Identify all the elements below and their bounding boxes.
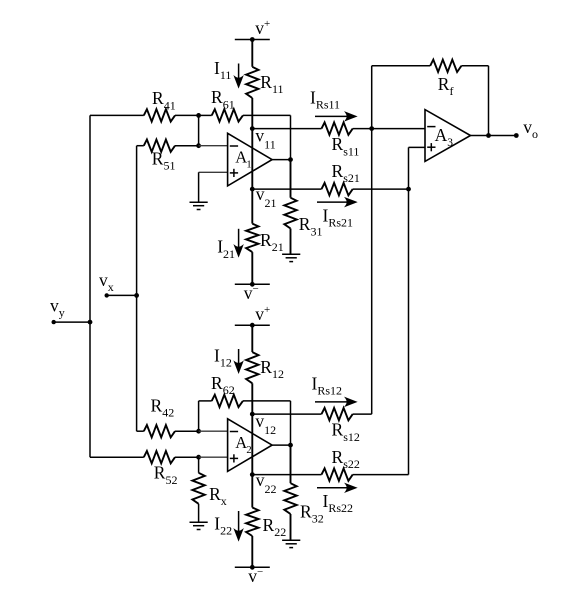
resistor Rs21: [252, 161, 408, 195]
wire A3 plus input stub: [409, 146, 426, 148]
wire R12 to node v12: [251, 383, 253, 414]
resistor R22: [246, 508, 286, 540]
node R52/A2 plus: [196, 455, 201, 460]
node v21: [250, 184, 277, 210]
wire R21 to v-: [251, 252, 253, 284]
resistor R62: [199, 373, 291, 431]
wire to A2 inverting input: [199, 430, 228, 432]
resistor R52: [90, 451, 199, 487]
resistor R11: [246, 67, 283, 98]
op-amp A3: [425, 110, 471, 162]
node vx junction: [134, 293, 139, 298]
wire Rs11 to A3 minus: [372, 128, 425, 130]
node A3 output: [486, 133, 491, 138]
resistor Rf: [372, 60, 489, 136]
node A1 output: [288, 157, 293, 162]
current arrow I12: [214, 346, 243, 373]
terminal vo: [514, 117, 538, 141]
wire A3 plus column: [408, 147, 410, 474]
resistor Rs22: [252, 447, 408, 481]
op-amp A1: [228, 133, 273, 186]
ground (R31): [282, 254, 300, 261]
resistor Rs11: [252, 122, 371, 158]
wire A3 output: [471, 135, 517, 137]
node A3 minus junction: [369, 126, 374, 131]
wire R22 to v-: [251, 536, 253, 567]
node R42/A2 minus: [196, 429, 201, 434]
wire A2 output: [272, 444, 290, 446]
current arrow IRs11: [310, 88, 356, 121]
node R41/R61: [196, 113, 201, 118]
wire A1 output: [272, 159, 290, 161]
wire A2 output to R32: [290, 445, 292, 483]
current arrow I22: [214, 511, 242, 540]
power rail v- (bottom): [235, 565, 270, 586]
node v11: [250, 126, 276, 152]
ground (R32): [282, 540, 300, 547]
wire A3 minus column: [371, 66, 373, 414]
terminal vx: [99, 270, 137, 298]
wire v11 through op-amp to v21: [251, 129, 253, 190]
node v12: [250, 411, 276, 437]
wire v+ to R11: [251, 40, 253, 67]
resistor R61: [199, 87, 291, 121]
wire v21 to R21: [251, 189, 253, 224]
wire vy column: [89, 115, 91, 457]
op-amp A2: [228, 419, 273, 472]
power rail v+ (top): [235, 18, 270, 42]
current arrow IRs21: [317, 198, 356, 229]
ground (A1 + input): [190, 202, 208, 209]
current arrow I21: [217, 229, 242, 261]
resistor R12: [246, 352, 284, 383]
wire R61 feedback to A1 output: [290, 115, 292, 159]
wire to A1 inverting input: [199, 145, 228, 147]
resistor R21: [246, 224, 284, 254]
resistor R41: [90, 88, 199, 121]
node R51/A1 minus: [196, 143, 201, 148]
wire R62 feedback to A2 output: [290, 401, 292, 445]
current arrow IRs12: [312, 374, 357, 406]
wire R11 to node v11: [251, 98, 253, 129]
wire v22 to R22: [251, 475, 253, 508]
wire v+ to R12: [251, 325, 253, 352]
resistor R31: [284, 198, 322, 255]
wire to A2 noninverting input: [199, 456, 228, 458]
wire A1 noninverting input: [199, 172, 228, 202]
resistor R51: [137, 140, 199, 173]
current arrow IRs22: [317, 484, 356, 515]
wire v12 through op-amp to v22: [251, 414, 253, 475]
wire vx column: [136, 146, 138, 432]
resistor R42: [137, 396, 199, 438]
resistor R32: [284, 483, 323, 540]
node A2 output: [288, 443, 293, 448]
wire A1 output to R31: [290, 160, 292, 198]
resistor Rs12: [252, 408, 371, 444]
terminal vy: [50, 296, 90, 325]
ground (Rx): [190, 522, 208, 529]
node vy junction: [88, 320, 93, 325]
node v22: [250, 470, 277, 496]
wire node link: [198, 115, 200, 145]
resistor Rx: [192, 457, 226, 522]
current arrow I11: [214, 58, 243, 87]
node A3 plus junction: [406, 187, 411, 192]
power rail v- (top): [235, 282, 270, 303]
power rail v+ (bottom): [235, 304, 270, 328]
